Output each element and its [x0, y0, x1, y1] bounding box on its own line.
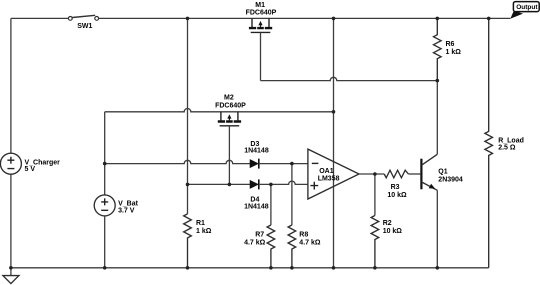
- node R6 / M1 gate / Q1 collector: [436, 79, 440, 83]
- node D4 wire / R7: [269, 183, 273, 187]
- node top rail / R6: [436, 17, 440, 21]
- svg-text:10 kΩ: 10 kΩ: [383, 228, 403, 235]
- svg-text:4.7 kΩ: 4.7 kΩ: [244, 240, 266, 247]
- wire M2 drain-source rail: [105, 109, 334, 112]
- svg-text:1N4148: 1N4148: [244, 203, 269, 210]
- node bottom rail / R8: [290, 266, 294, 270]
- resistor R6: [434, 18, 462, 80]
- node bottom rail / Q1 emitter: [436, 266, 440, 270]
- svg-text:LM358: LM358: [318, 175, 340, 182]
- wire Q1 emitter to bottom rail: [436, 190, 438, 267]
- voltage source V_Bat: [94, 195, 138, 216]
- svg-text:4.7 kΩ: 4.7 kΩ: [299, 240, 321, 247]
- wire V_Bat to D3 anode (hops over charger-sense and M2 gate): [105, 160, 250, 163]
- node bottom rail / V_Bat: [103, 266, 107, 270]
- node bottom rail / R1: [186, 266, 190, 270]
- svg-text:5 V: 5 V: [25, 166, 36, 173]
- svg-text:R1: R1: [196, 220, 205, 227]
- switch SW1: [68, 15, 98, 29]
- wire D3 cathode to opamp inverting input: [259, 163, 308, 165]
- voltage source V_Charger: [0, 153, 60, 174]
- node M2 gate / D4 wire: [228, 183, 232, 187]
- op-amp OA1 LM358: [308, 149, 359, 199]
- flag Output: [510, 2, 539, 19]
- wire vertical charger-sense (top rail to R1): [187, 18, 189, 214]
- svg-text:M2: M2: [224, 95, 234, 102]
- svg-text:1 kΩ: 1 kΩ: [446, 49, 462, 56]
- svg-text:R_Load: R_Load: [498, 137, 524, 144]
- svg-text:R2: R2: [383, 220, 392, 227]
- resistor R7: [244, 225, 275, 268]
- resistor R_Load: [485, 18, 524, 267]
- wire Q1 collector: [436, 81, 438, 155]
- resistor R3: [384, 170, 408, 199]
- svg-text:M1: M1: [255, 2, 265, 9]
- svg-text:2.5 Ω: 2.5 Ω: [498, 145, 516, 152]
- wire opamp output: [359, 173, 384, 175]
- node top rail / charger-sense: [186, 17, 190, 21]
- svg-text:1N4148: 1N4148: [244, 148, 269, 155]
- wire R3 to Q1 base: [408, 173, 420, 175]
- svg-text:R7: R7: [255, 232, 264, 239]
- resistor R2: [371, 216, 402, 268]
- wire M2 gate lead: [228, 126, 230, 185]
- node top rail / opamp supply: [332, 17, 336, 21]
- node bottom rail / R7: [269, 266, 273, 270]
- node charger-sense / D4 wire: [186, 183, 190, 187]
- diode D3: [244, 141, 269, 169]
- resistor R1: [184, 214, 212, 268]
- wire left vertical to V_Charger: [10, 18, 12, 267]
- wire R7 branch: [270, 184, 272, 225]
- node bottom rail / opamp supply: [332, 266, 336, 270]
- wire opamp supply vertical (top rail to bottom rail): [333, 18, 335, 267]
- svg-text:Q1: Q1: [438, 168, 447, 175]
- svg-text:10 kΩ: 10 kΩ: [387, 192, 407, 199]
- svg-text:R6: R6: [446, 41, 455, 48]
- transistor M1 (P-MOSFET): [246, 2, 277, 32]
- wire M1 gate lead: [260, 32, 262, 80]
- svg-text:FDC640P: FDC640P: [215, 103, 246, 110]
- svg-text:R8: R8: [299, 232, 308, 239]
- node V_Bat / D3 wire: [103, 162, 107, 166]
- svg-text:1 kΩ: 1 kΩ: [196, 228, 212, 235]
- svg-text:OA1: OA1: [319, 168, 334, 175]
- transistor M2 (P-MOSFET): [215, 95, 246, 126]
- node M2 rail / opamp supply: [332, 110, 336, 114]
- transistor Q1 (NPN 2N3904): [421, 154, 463, 190]
- wire D4 cathode to opamp non-inverting input (hop over R8 branch): [259, 181, 308, 184]
- diode D4: [244, 179, 269, 210]
- svg-text:2N3904: 2N3904: [438, 176, 463, 183]
- svg-text:SW1: SW1: [77, 23, 92, 30]
- node bottom rail / R2: [373, 266, 377, 270]
- resistor R8: [288, 225, 321, 268]
- node D3 wire / R8: [290, 162, 294, 166]
- ground: [3, 268, 19, 284]
- node top rail / R_Load: [487, 17, 491, 21]
- wire top rail right segment: [99, 17, 511, 19]
- svg-text:R3: R3: [391, 184, 400, 191]
- svg-text:Output: Output: [516, 4, 538, 11]
- wire R2 branch: [374, 174, 376, 216]
- wire charger-sense to D4 anode: [188, 183, 251, 185]
- svg-text:3.7 V: 3.7 V: [118, 208, 135, 215]
- node bottom rail / ground: [9, 266, 13, 270]
- wire R8 branch: [291, 164, 293, 225]
- wire top rail left segment: [11, 17, 68, 19]
- wire M1 gate to collector node (hop over opamp supply): [261, 77, 438, 80]
- svg-text:FDC640P: FDC640P: [246, 10, 277, 17]
- wire battery branch vertical: [104, 112, 106, 195]
- wire V_Bat to bottom rail: [104, 216, 106, 268]
- node opamp output / R2: [373, 172, 377, 176]
- wire bottom rail: [11, 267, 489, 269]
